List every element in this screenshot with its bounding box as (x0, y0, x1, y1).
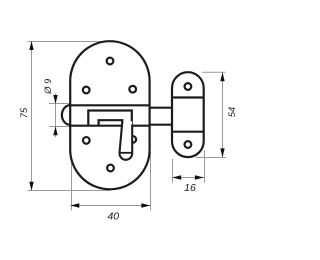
svg-text:75: 75 (19, 107, 29, 118)
plate screw hole mid-right (129, 86, 136, 93)
plate screw hole bottom (107, 165, 114, 172)
arrow dim diameter9 bottom (53, 126, 57, 135)
arrow dim54 bottom (220, 148, 224, 157)
dim diameter 9 tick bottom (49, 126, 70, 128)
dim 16 line (172, 177, 204, 179)
handle bottom chord line (120, 152, 133, 154)
svg-text:40: 40 (107, 211, 119, 223)
dim 16 extension line left (172, 159, 174, 183)
bolt guide band top line (70, 104, 149, 106)
bolt rod bottom line (150, 124, 173, 126)
arrow dim16 left (172, 175, 181, 179)
arrow dim40 left (70, 203, 79, 207)
keeper staple band bottom line (172, 131, 204, 133)
latch plate outline (70, 41, 149, 189)
bolt handle knob (119, 121, 132, 160)
dim 16 extension line right (204, 150, 206, 183)
dim 54 extension line top (202, 71, 226, 73)
dim 75 line (31, 42, 33, 191)
bolt slot rectangle (88, 111, 132, 126)
arrow dim75 bottom (29, 182, 33, 191)
svg-text:Ø 9: Ø 9 (42, 78, 53, 95)
arrow dim16 right (195, 175, 204, 179)
plate screw hole lower-left (83, 137, 90, 144)
dim 40 extension line right (150, 152, 152, 211)
dim 40 extension line left (71, 162, 73, 211)
keeper screw hole bottom (185, 141, 192, 148)
plate screw hole top (107, 58, 114, 65)
arrow dim54 top (220, 72, 224, 81)
bolt rod top line (150, 107, 173, 109)
dim 40 line (70, 205, 150, 207)
bolt guide band bottom line (70, 125, 149, 127)
keeper plate outline (172, 72, 204, 157)
keeper staple band top line (172, 96, 204, 98)
dim 54 line (222, 72, 224, 157)
bolt inner step rectangle (99, 120, 123, 126)
dim 75 extension line top (28, 41, 111, 43)
arrow dim diameter9 top (53, 95, 57, 104)
plate screw hole lower-right (behind handle) (129, 136, 136, 143)
arrow dim75 top (29, 41, 33, 50)
svg-text:54: 54 (227, 107, 237, 117)
svg-text:16: 16 (184, 182, 196, 194)
dim diameter 9 tick top (49, 103, 70, 105)
keeper screw hole top (185, 83, 192, 90)
arrow dim40 right (141, 203, 150, 207)
dim diameter 9 leader line (55, 94, 57, 138)
dim 75 extension line bottom (28, 190, 111, 192)
plate screw hole mid-left (83, 87, 90, 94)
dim 54 extension line bottom (196, 157, 226, 159)
bolt left end knob arc (62, 105, 70, 125)
